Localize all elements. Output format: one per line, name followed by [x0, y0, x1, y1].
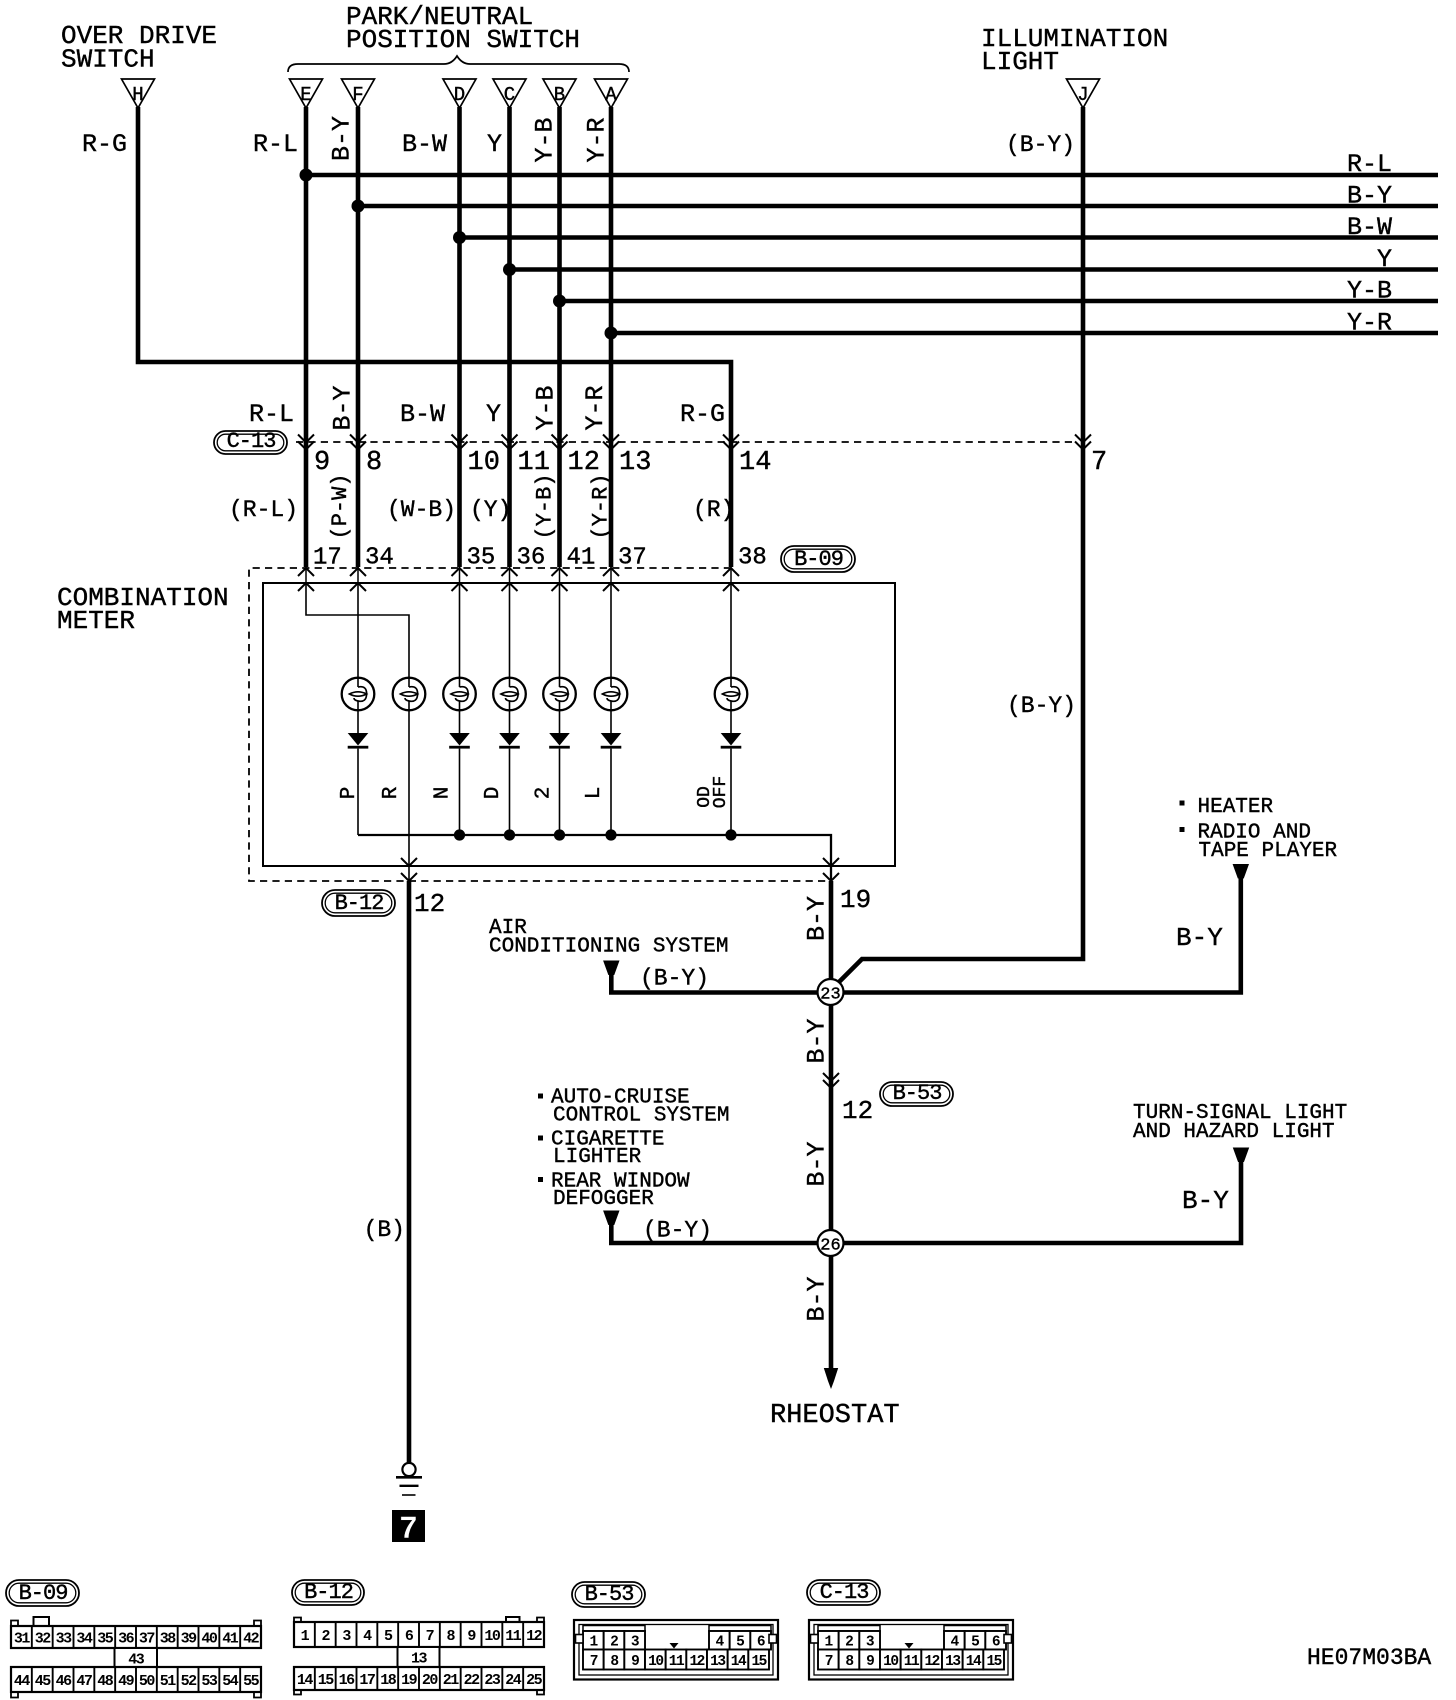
svg-text:50: 50 — [139, 1673, 156, 1690]
connector B-53 inline label — [880, 1081, 953, 1106]
label OVER DRIVE SWITCH — [61, 21, 217, 75]
combination meter dashed outline — [249, 568, 831, 881]
wire pin17 to R bulb (jog) — [306, 583, 409, 678]
svg-text:J: J — [1077, 84, 1088, 106]
svg-text:52: 52 — [181, 1673, 198, 1690]
svg-text:LIGHT: LIGHT — [981, 47, 1059, 77]
indicator bulb OD — [715, 678, 748, 711]
splice 23 — [818, 979, 844, 1005]
indicator bulb P — [342, 678, 375, 711]
svg-text:RHEOSTAT: RHEOSTAT — [770, 1401, 900, 1431]
svg-text:TAPE PLAYER: TAPE PLAYER — [1199, 840, 1338, 863]
wire (B-Y) auto-cruise to splice 26 — [611, 1222, 817, 1243]
label AUTO-CRUISE CONTROL SYSTEM etc — [538, 1087, 729, 1212]
svg-text:2: 2 — [610, 1635, 618, 1651]
svg-text:8: 8 — [610, 1654, 618, 1670]
svg-text:CONDITIONING SYSTEM: CONDITIONING SYSTEM — [489, 936, 728, 959]
svg-text:54: 54 — [222, 1673, 239, 1690]
svg-text:E: E — [300, 84, 311, 106]
svg-text:18: 18 — [380, 1672, 397, 1689]
arrow into C-13 — [502, 435, 518, 450]
svg-text:3: 3 — [866, 1635, 874, 1651]
svg-text:Y-R: Y-R — [581, 385, 610, 430]
wire bulb feed — [559, 583, 561, 678]
svg-text:6: 6 — [757, 1635, 765, 1651]
svg-text:B-Y: B-Y — [327, 116, 356, 161]
wire bulb feed — [357, 583, 359, 678]
svg-text:44: 44 — [14, 1673, 31, 1690]
wire B-Y vertical — [356, 107, 361, 567]
svg-text:B-W: B-W — [402, 130, 447, 159]
arrow meter exit pin12 — [401, 858, 417, 881]
connector terminal H — [122, 79, 155, 108]
indicator bulb D — [493, 678, 526, 711]
wire (B) to ground — [407, 881, 412, 1463]
wire Y-B vertical — [557, 107, 562, 567]
connector triangle A/C — [604, 961, 619, 975]
arrow into meter — [298, 568, 314, 591]
diode — [601, 733, 622, 749]
svg-text:31: 31 — [14, 1630, 31, 1647]
svg-text:D: D — [482, 787, 505, 800]
wire B-Y splice 26 to turn-signal — [844, 1159, 1242, 1243]
wire Y-R vertical — [609, 107, 614, 567]
wire Y-R horizontal bus — [611, 331, 1438, 336]
svg-text:C: C — [504, 84, 515, 106]
arrow into C-13 — [452, 435, 468, 450]
svg-text:49: 49 — [118, 1673, 135, 1690]
svg-text:B-Y: B-Y — [802, 1141, 831, 1186]
svg-text:6: 6 — [992, 1635, 1000, 1651]
svg-text:4: 4 — [950, 1635, 959, 1651]
arrow into meter — [552, 568, 568, 591]
arrowhead to rheostat — [824, 1368, 838, 1389]
svg-text:21: 21 — [443, 1672, 460, 1689]
arrow into meter — [603, 568, 619, 591]
wire stub through B-09 — [357, 567, 359, 583]
svg-text:C-13: C-13 — [227, 429, 276, 454]
svg-text:(B-Y): (B-Y) — [1007, 693, 1076, 719]
label COMBINATION METER — [57, 583, 229, 636]
svg-text:B-Y: B-Y — [802, 1276, 831, 1321]
svg-text:47: 47 — [76, 1673, 92, 1690]
svg-text:(R-L): (R-L) — [229, 497, 298, 523]
wire bulb feed — [509, 583, 511, 678]
svg-text:5: 5 — [736, 1635, 744, 1651]
dashed harness line C-13 — [296, 441, 1073, 443]
junction dot bus — [454, 829, 465, 840]
indicator bulb N — [443, 678, 476, 711]
svg-text:7: 7 — [399, 1511, 418, 1548]
svg-text:METER: METER — [57, 606, 135, 636]
svg-text:B-09: B-09 — [19, 1581, 68, 1606]
svg-text:B-W: B-W — [1347, 213, 1392, 242]
svg-text:(Y-B): (Y-B) — [533, 473, 558, 539]
wire stub through B-09 — [559, 567, 561, 583]
arrow into C-13 — [603, 435, 619, 450]
junction dot Y-R — [605, 327, 618, 340]
label TURN-SIGNAL LIGHT AND HAZARD LIGHT — [1133, 1102, 1347, 1144]
wire B-W vertical — [457, 107, 462, 567]
brace park/neutral group — [288, 56, 629, 72]
svg-text:12: 12 — [924, 1654, 939, 1670]
wire R-L horizontal bus — [306, 173, 1438, 178]
arrow into meter — [502, 568, 518, 591]
svg-text:(B): (B) — [364, 1217, 405, 1243]
svg-text:B: B — [554, 84, 565, 106]
svg-text:(Y-R): (Y-R) — [589, 473, 614, 539]
svg-text:13: 13 — [945, 1654, 960, 1670]
wire B-W horizontal bus — [460, 235, 1439, 240]
svg-text:CONTROL SYSTEM: CONTROL SYSTEM — [553, 1105, 729, 1128]
svg-text:23: 23 — [820, 986, 840, 1005]
wire B-Y splice 23 to heater/radio — [844, 876, 1241, 993]
svg-text:12: 12 — [526, 1628, 543, 1645]
wire Y horizontal bus — [510, 267, 1439, 272]
wire bulb feed — [730, 583, 732, 678]
arrow meter exit pin19 — [823, 858, 839, 881]
svg-text:37: 37 — [139, 1630, 155, 1647]
junction dot bus — [554, 829, 565, 840]
diode — [449, 733, 470, 749]
svg-text:A: A — [605, 84, 617, 106]
svg-text:Y: Y — [486, 400, 501, 429]
svg-text:13: 13 — [619, 448, 651, 478]
indicator bulb L — [595, 678, 628, 711]
svg-text:15: 15 — [751, 1654, 766, 1670]
connector B-09 pinout label — [6, 1580, 79, 1606]
svg-text:Y-B: Y-B — [1347, 277, 1392, 306]
svg-text:19: 19 — [840, 885, 871, 915]
svg-text:40: 40 — [201, 1630, 218, 1647]
splice 26 — [818, 1230, 844, 1256]
svg-text:Y: Y — [487, 130, 502, 159]
svg-text:17: 17 — [359, 1672, 375, 1689]
connector B-09 inline label — [781, 546, 855, 572]
wire B-Y to rheostat — [829, 1256, 834, 1370]
arrow into C-13 — [723, 435, 739, 450]
svg-text:14: 14 — [731, 1654, 747, 1670]
svg-text:32: 32 — [35, 1630, 52, 1647]
wire stub through B-09 — [610, 567, 612, 583]
connector C-13 pinout label — [807, 1580, 880, 1605]
svg-text:R-L: R-L — [253, 130, 298, 159]
wire diode to common bus — [730, 749, 732, 835]
wire B-Y 23 to 26 — [829, 1005, 834, 1230]
arrow into meter — [723, 568, 739, 591]
svg-text:48: 48 — [97, 1673, 114, 1690]
svg-text:Y-B: Y-B — [532, 385, 561, 430]
wire diode to common bus — [509, 749, 511, 835]
svg-text:2: 2 — [532, 787, 555, 800]
junction dot B-Y — [352, 200, 365, 213]
indicator bulb R — [393, 678, 426, 711]
wire bulb to diode — [610, 710, 612, 733]
svg-text:38: 38 — [160, 1630, 177, 1647]
svg-text:16: 16 — [339, 1672, 356, 1689]
wire bulb feed — [459, 583, 461, 678]
svg-text:39: 39 — [181, 1630, 198, 1647]
connector C-13 inline label — [214, 429, 287, 454]
connector terminal D — [443, 79, 476, 108]
svg-text:D: D — [454, 84, 465, 106]
wire diode to common bus — [610, 749, 612, 835]
connector triangle auto-cruise — [604, 1211, 619, 1225]
svg-text:14: 14 — [966, 1654, 982, 1670]
svg-text:8: 8 — [845, 1654, 853, 1670]
svg-text:42: 42 — [243, 1630, 260, 1647]
svg-text:F: F — [352, 84, 363, 106]
svg-text:12: 12 — [689, 1654, 704, 1670]
svg-text:B-Y: B-Y — [1347, 182, 1392, 211]
svg-text:51: 51 — [160, 1673, 177, 1690]
svg-text:3: 3 — [631, 1635, 639, 1651]
svg-text:B-Y: B-Y — [328, 385, 357, 430]
svg-text:DEFOGGER: DEFOGGER — [553, 1188, 654, 1211]
wire bulb to diode — [459, 710, 461, 733]
svg-text:5: 5 — [971, 1635, 979, 1651]
svg-text:7: 7 — [825, 1654, 833, 1670]
svg-text:11: 11 — [669, 1654, 685, 1670]
svg-text:46: 46 — [56, 1673, 73, 1690]
svg-text:Y-B: Y-B — [530, 117, 559, 162]
arrow into C-13 — [552, 435, 568, 450]
svg-text:B-53: B-53 — [893, 1081, 942, 1106]
wire R-G from H — [138, 107, 731, 567]
svg-text:B-12: B-12 — [304, 1580, 353, 1605]
svg-text:Y-R: Y-R — [582, 117, 611, 162]
svg-text:10: 10 — [883, 1654, 898, 1670]
arrow into B-53 — [823, 1073, 839, 1088]
wire diode to common bus — [357, 749, 359, 835]
combination meter box — [263, 583, 895, 866]
svg-text:LIGHTER: LIGHTER — [553, 1146, 642, 1169]
svg-text:1: 1 — [589, 1635, 598, 1651]
arrow into C-13 — [1075, 435, 1091, 450]
svg-text:36: 36 — [118, 1630, 135, 1647]
wire bulb to diode — [730, 710, 732, 733]
svg-text:B-Y: B-Y — [802, 1018, 831, 1063]
svg-text:2: 2 — [845, 1635, 853, 1651]
wire stub through B-09 — [305, 567, 307, 583]
connector B-53 pinout — [574, 1620, 778, 1680]
svg-text:R-L: R-L — [249, 400, 294, 429]
connector triangle heater/radio — [1233, 865, 1248, 879]
arrow into C-13 — [298, 435, 314, 450]
svg-text:41: 41 — [222, 1630, 239, 1647]
svg-text:OFF: OFF — [711, 776, 731, 808]
svg-text:10: 10 — [648, 1654, 663, 1670]
connector B-12 inline label — [322, 890, 395, 916]
connector terminal E — [290, 79, 323, 108]
svg-text:B-53: B-53 — [585, 1582, 634, 1607]
svg-text:55: 55 — [243, 1673, 260, 1690]
connector B-12 pinout label — [292, 1580, 364, 1605]
svg-text:11: 11 — [904, 1654, 920, 1670]
svg-text:R: R — [380, 786, 403, 799]
svg-text:8: 8 — [366, 448, 382, 478]
svg-text:12: 12 — [842, 1096, 873, 1126]
connector terminal B — [543, 79, 576, 108]
label PARK/NEUTRAL POSITION SWITCH — [346, 2, 580, 55]
label HEATER RADIO AND TAPE PLAYER — [1180, 796, 1338, 863]
indicator bulb 2 — [543, 678, 576, 711]
svg-text:34: 34 — [76, 1630, 93, 1647]
svg-text:25: 25 — [526, 1672, 543, 1689]
svg-text:1: 1 — [824, 1635, 833, 1651]
wire R bulb to exit — [408, 710, 410, 881]
junction dot B-W — [453, 231, 466, 244]
svg-text:P: P — [338, 787, 361, 800]
wire R-L vertical — [304, 107, 309, 567]
svg-text:10: 10 — [484, 1628, 501, 1645]
svg-text:45: 45 — [35, 1673, 52, 1690]
connector triangle turn-signal — [1234, 1148, 1249, 1162]
svg-text:33: 33 — [56, 1630, 73, 1647]
svg-text:38: 38 — [738, 545, 767, 572]
junction dot bus — [504, 829, 515, 840]
wire diode to common bus — [559, 749, 561, 835]
svg-text:10: 10 — [468, 448, 500, 478]
svg-text:22: 22 — [464, 1672, 481, 1689]
svg-text:(B-Y): (B-Y) — [640, 966, 709, 992]
svg-text:4: 4 — [715, 1635, 724, 1651]
svg-text:H: H — [132, 84, 143, 106]
svg-text:Y-R: Y-R — [1347, 309, 1392, 338]
svg-text:Y: Y — [1377, 245, 1392, 274]
svg-text:26: 26 — [820, 1237, 840, 1256]
svg-text:14: 14 — [739, 448, 771, 478]
svg-text:N: N — [431, 787, 454, 800]
wire Y-B horizontal bus — [560, 299, 1439, 304]
wire B-Y trunk pin19 down — [829, 881, 834, 980]
svg-text:B-09: B-09 — [794, 547, 843, 572]
junction dot Y — [503, 263, 516, 276]
junction dot bus — [605, 829, 616, 840]
svg-text:(W-B): (W-B) — [387, 497, 456, 523]
svg-text:(Y): (Y) — [470, 497, 511, 523]
junction dot Y-B — [553, 295, 566, 308]
svg-text:13: 13 — [411, 1651, 428, 1668]
svg-text:POSITION SWITCH: POSITION SWITCH — [346, 25, 580, 55]
svg-text:11: 11 — [505, 1628, 522, 1645]
svg-text:(B-Y): (B-Y) — [643, 1218, 712, 1244]
svg-text:7: 7 — [426, 1628, 434, 1645]
wire B-Y horizontal bus — [358, 204, 1438, 209]
svg-text:15: 15 — [318, 1672, 335, 1689]
ground reference 7 — [392, 1510, 425, 1548]
wire Y vertical — [507, 107, 512, 567]
wire bulb to diode — [509, 710, 511, 733]
svg-text:23: 23 — [484, 1672, 501, 1689]
diode — [499, 733, 520, 749]
svg-text:B-12: B-12 — [335, 891, 384, 916]
wire stub through B-09 — [730, 567, 732, 583]
svg-text:14: 14 — [297, 1672, 314, 1689]
connector terminal J — [1067, 79, 1100, 108]
wire bulb feed — [610, 583, 612, 678]
connector B-09 pinout — [11, 1617, 261, 1698]
arrow into meter — [350, 568, 366, 591]
svg-text:9: 9 — [631, 1654, 639, 1670]
wire (B-Y) A/C to splice 23 — [611, 972, 817, 993]
ground symbol — [396, 1463, 422, 1495]
svg-text:L: L — [583, 787, 606, 800]
svg-text:SWITCH: SWITCH — [61, 45, 155, 75]
arrow into meter — [452, 568, 468, 591]
svg-text:(R): (R) — [693, 497, 734, 523]
svg-text:13: 13 — [710, 1654, 725, 1670]
svg-text:R-G: R-G — [82, 130, 127, 159]
wire common return bus — [358, 835, 831, 881]
svg-text:9: 9 — [866, 1654, 874, 1670]
wire bulb to diode — [357, 710, 359, 733]
svg-text:R-L: R-L — [1347, 150, 1392, 179]
label OD OFF (rotated) — [695, 776, 731, 808]
svg-text:(B-Y): (B-Y) — [1006, 132, 1075, 158]
connector terminal F — [342, 79, 375, 108]
connector terminal A — [595, 79, 628, 108]
svg-text:12: 12 — [414, 889, 445, 919]
connector B-12 pinout — [294, 1617, 544, 1695]
svg-text:C-13: C-13 — [820, 1580, 869, 1605]
connector terminal C — [493, 79, 526, 108]
svg-text:R-G: R-G — [680, 400, 725, 429]
svg-text:B-W: B-W — [400, 400, 445, 429]
svg-text:AND HAZARD LIGHT: AND HAZARD LIGHT — [1133, 1121, 1335, 1144]
wire B-Y from J — [839, 107, 1084, 983]
connector C-13 pinout — [809, 1620, 1013, 1680]
svg-text:35: 35 — [97, 1630, 114, 1647]
connector B-53 pinout label — [572, 1582, 645, 1607]
junction dot bus — [725, 829, 736, 840]
label AIR CONDITIONING SYSTEM — [489, 917, 728, 959]
wire diode to common bus — [459, 749, 461, 835]
svg-text:B-Y: B-Y — [802, 896, 831, 941]
arrow into C-13 — [350, 435, 366, 450]
svg-text:20: 20 — [422, 1672, 439, 1689]
wire stub through B-09 — [509, 567, 511, 583]
svg-text:(P-W): (P-W) — [328, 473, 353, 539]
svg-text:53: 53 — [201, 1673, 218, 1690]
svg-text:B-Y: B-Y — [1176, 923, 1223, 953]
svg-text:19: 19 — [401, 1672, 418, 1689]
wire stub through B-09 — [459, 567, 461, 583]
svg-text:24: 24 — [505, 1672, 522, 1689]
svg-text:HEATER: HEATER — [1198, 796, 1274, 819]
diode — [721, 733, 742, 749]
diode — [549, 733, 570, 749]
label ILLUMINATION LIGHT — [981, 24, 1168, 77]
svg-text:HE07M03BA: HE07M03BA — [1307, 1645, 1431, 1671]
svg-text:15: 15 — [986, 1654, 1001, 1670]
svg-text:7: 7 — [1091, 448, 1107, 478]
junction dot R-L — [300, 169, 313, 182]
wire bulb to diode — [559, 710, 561, 733]
svg-text:B-Y: B-Y — [1182, 1186, 1229, 1216]
diode — [348, 733, 369, 749]
svg-text:7: 7 — [590, 1654, 598, 1670]
